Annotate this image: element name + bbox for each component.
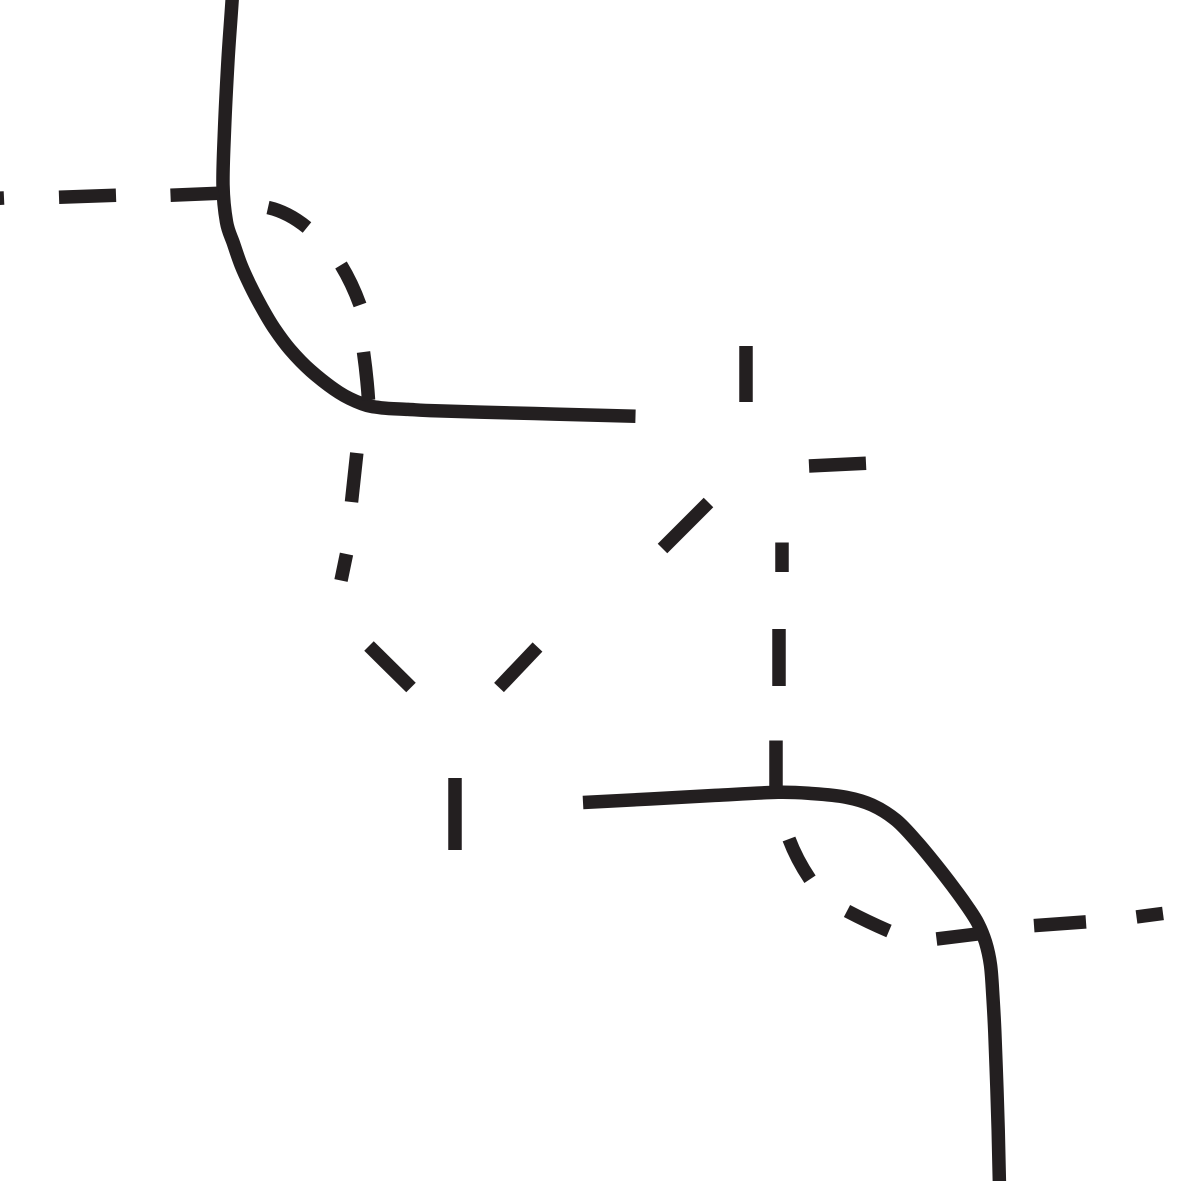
dashed path C, dash 6 (bends down-right) bbox=[369, 646, 411, 688]
dashed path C, dash 4 (below road A) bbox=[352, 453, 357, 502]
dashed arc C, dash 1 bbox=[268, 208, 307, 228]
dashed arc C, dash 2 bbox=[341, 265, 360, 305]
dashed vertical D, dash 3 bbox=[775, 543, 789, 573]
dashed diagonal G, dash 1 (lower) bbox=[499, 647, 538, 688]
dashed vertical D, dash 4 bbox=[772, 629, 786, 686]
dashed line F, dash 2 bbox=[1034, 922, 1086, 926]
dashed arc E, dash 1 bbox=[789, 839, 810, 879]
dashed line B, dash 1 (left edge) bbox=[0, 198, 4, 200]
dashed path C, dash 5 bbox=[341, 554, 347, 581]
dashed line F, dash 1 (meets road E) bbox=[937, 933, 985, 939]
dashed arc C, dash 3 (crosses road A) bbox=[364, 352, 369, 400]
dashed diagonal G, dash 2 (upper) bbox=[663, 503, 709, 549]
dashed line F, dash 3 (right, partial) bbox=[1137, 913, 1164, 917]
dashed line B, dash 2 bbox=[59, 195, 116, 197]
dashed arc E, dash 2 bbox=[847, 911, 889, 931]
dashed stem H (below junction) bbox=[448, 778, 462, 850]
dashed vertical D, dash 5 (meets road E) bbox=[769, 741, 783, 793]
road A (solid: from top edge, elbow curve, horizontal to center-right) bbox=[223, 0, 636, 416]
road E (solid: horizontal from center-left, elbow curve, down to bottom edge) bbox=[583, 792, 1000, 1181]
dashed vertical D, dash 1 (top) bbox=[739, 346, 753, 402]
dashed horizontal D, dash 2 bbox=[809, 463, 866, 466]
dashed line B, dash 3 (meets road A) bbox=[171, 193, 220, 195]
